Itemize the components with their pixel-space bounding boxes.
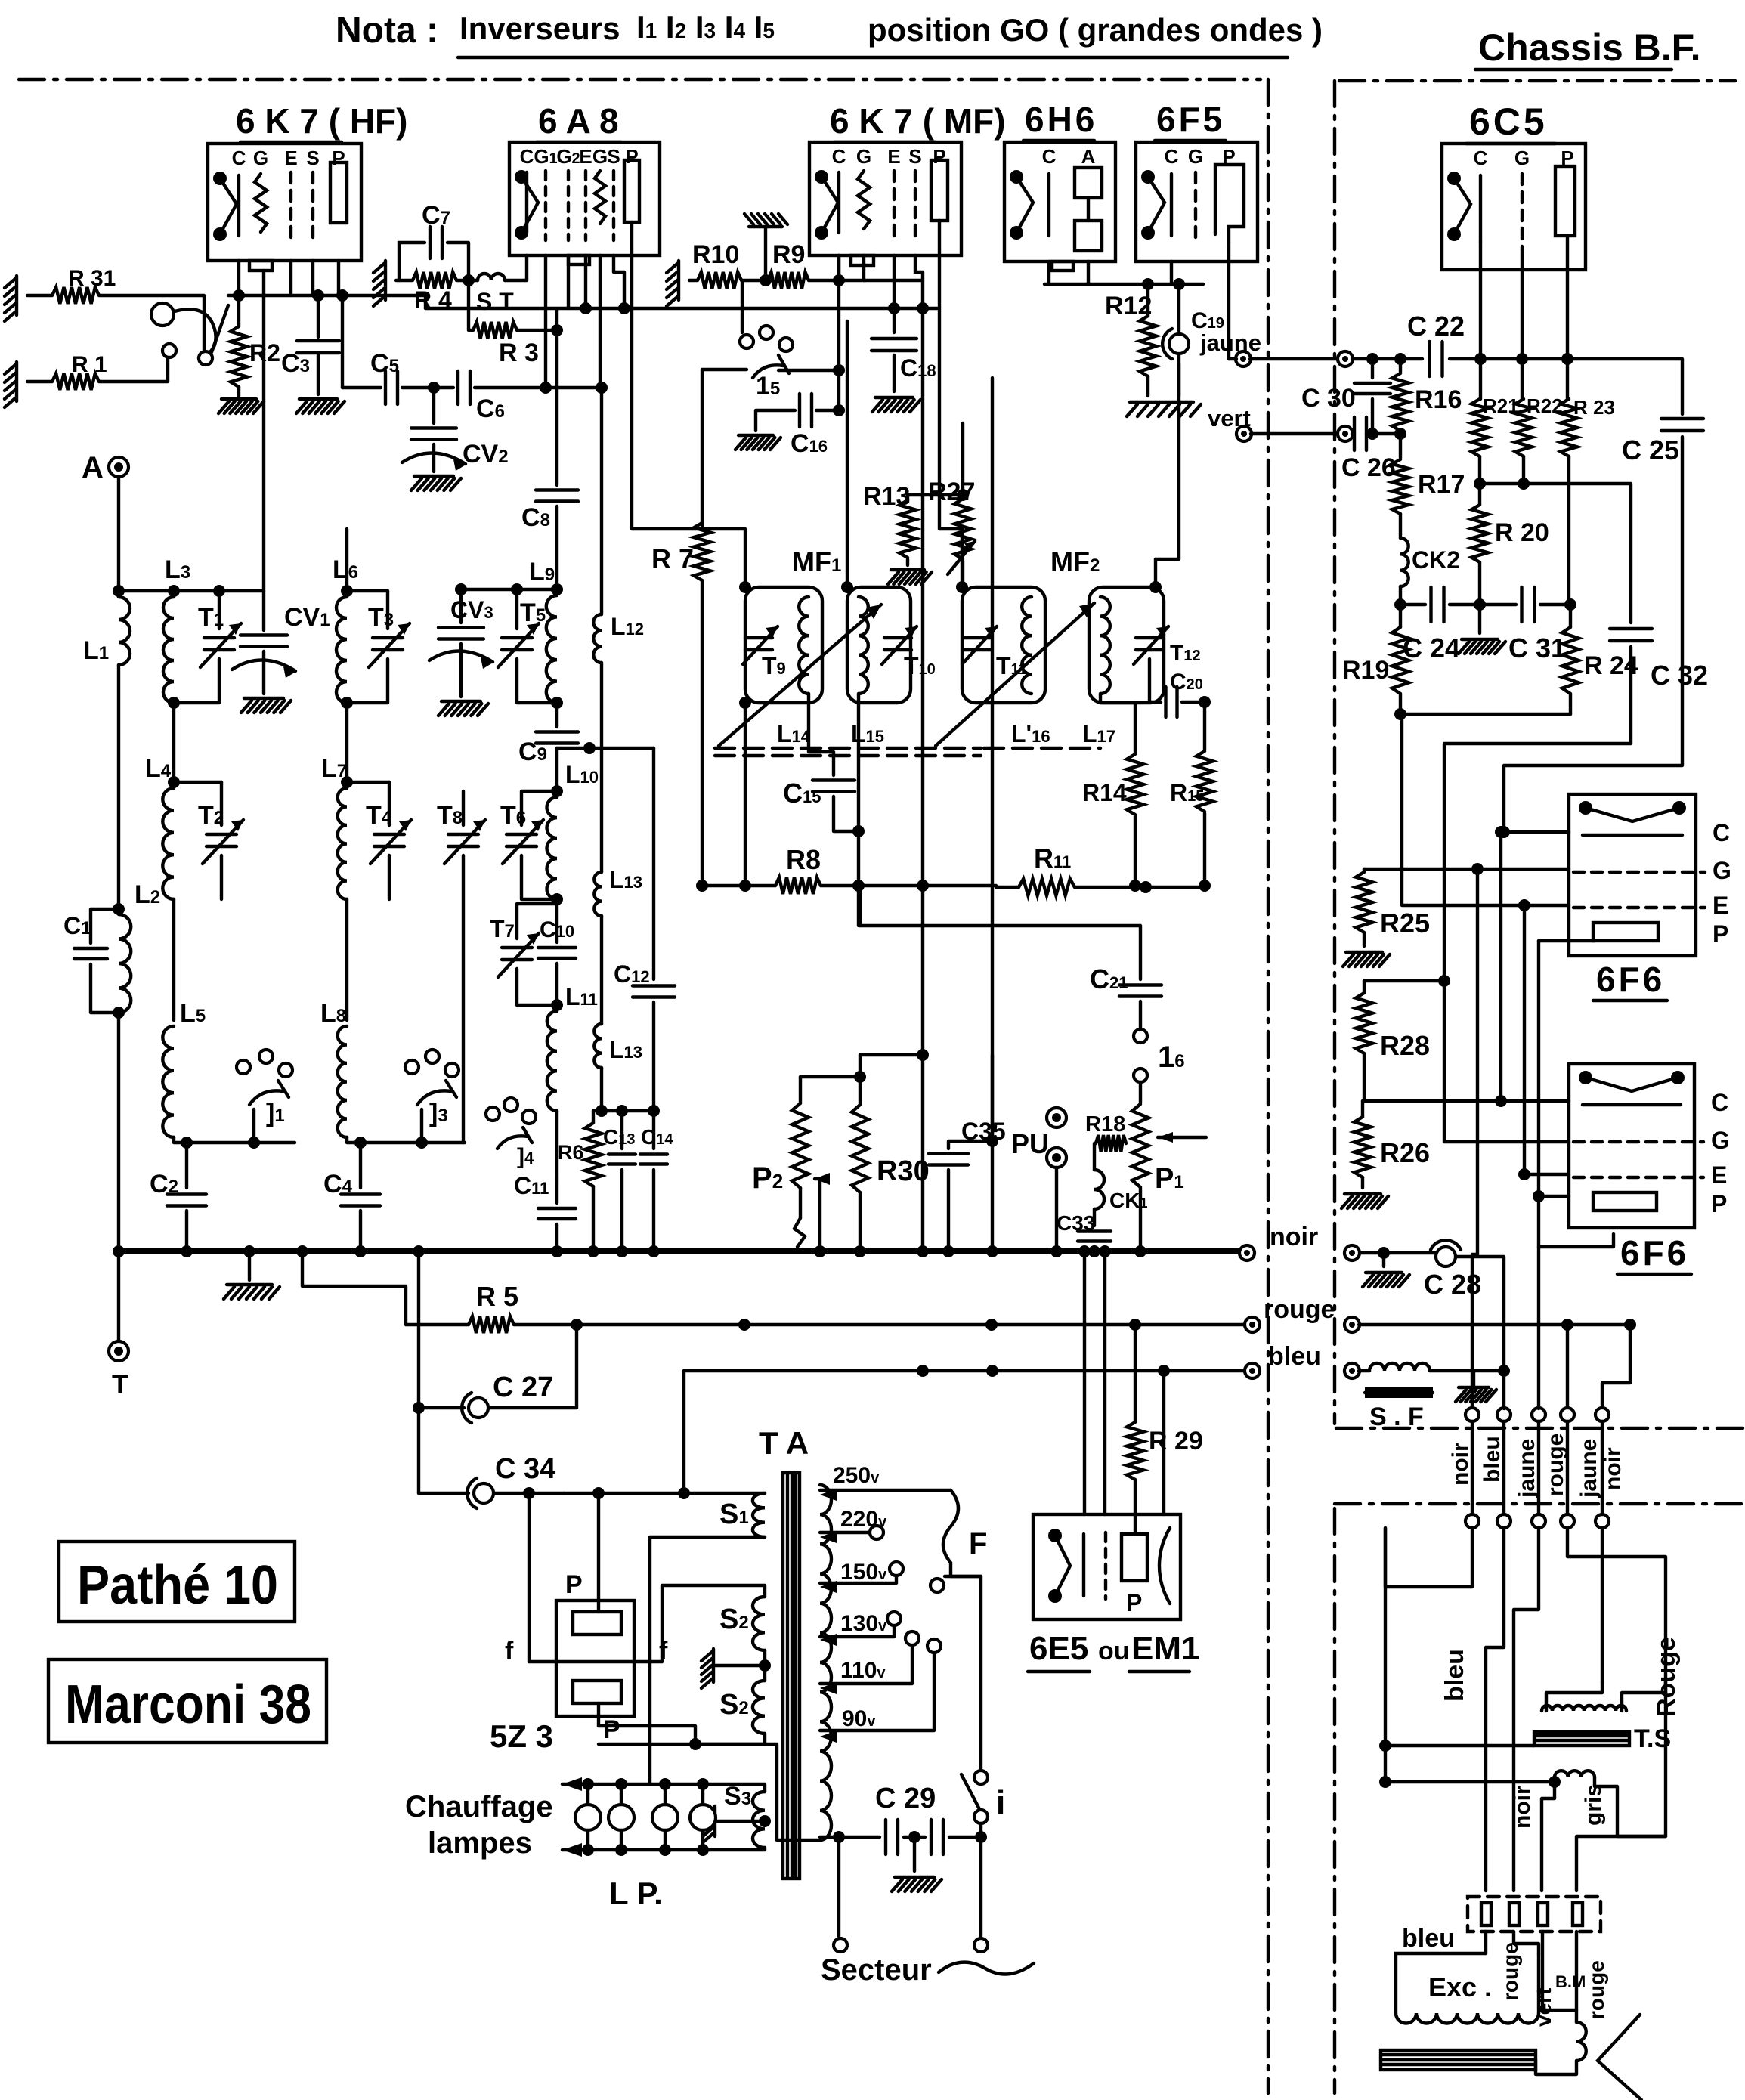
svg-text:F: F — [969, 1527, 987, 1560]
junction — [985, 1319, 998, 1331]
junction — [1498, 1365, 1510, 1377]
svg-text:C: C — [232, 147, 246, 169]
ground S.F — [1456, 1387, 1496, 1402]
potentiometer P1 wiper arrow — [1158, 1136, 1206, 1139]
resistor R23 — [1561, 399, 1577, 456]
wire to connector pin4 — [1576, 1836, 1666, 1891]
capacitor C12 — [633, 986, 675, 997]
svg-text:noir: noir — [1448, 1443, 1473, 1486]
speaker cone chevron — [1598, 2015, 1641, 2100]
junction — [917, 1049, 929, 1061]
connector pin 3 — [1538, 1903, 1548, 1925]
capacitor C7 — [430, 227, 442, 258]
junction — [416, 1137, 428, 1149]
wire C8 to L9 — [555, 506, 558, 589]
junction — [1394, 598, 1406, 611]
wire C16 to cathode column — [816, 409, 839, 412]
svg-text:Marconi 38: Marconi 38 — [65, 1675, 311, 1735]
ground C3 — [296, 399, 345, 413]
switch I3 contact — [425, 1050, 439, 1063]
junction — [243, 1245, 255, 1257]
wire voice coil bottom — [1385, 1780, 1555, 1783]
switch I3 contact — [405, 1060, 419, 1074]
wire rouge line — [514, 1323, 1245, 1326]
junction — [957, 489, 969, 501]
wire T6 branch — [521, 791, 557, 825]
wire T4 bottom — [388, 855, 391, 899]
wire T4 branch — [347, 781, 389, 784]
svg-text:R 3: R 3 — [499, 339, 539, 367]
resistor R9 — [768, 272, 809, 289]
wire T2 bottom — [220, 855, 223, 899]
svg-text:bleu: bleu — [1268, 1342, 1321, 1371]
wire R18 to CK1 — [1094, 1143, 1096, 1170]
svg-text:noir: noir — [1510, 1786, 1535, 1829]
tube 6K7HF pin labels — [232, 147, 345, 169]
ground CV3 — [438, 701, 488, 716]
junction — [1078, 1245, 1091, 1257]
wire C29 left — [820, 1836, 880, 1839]
junction — [213, 585, 225, 597]
chassis wall R4 — [373, 261, 385, 306]
junction — [917, 1245, 929, 1257]
resistor R26 — [1354, 1117, 1371, 1177]
junction — [738, 1319, 750, 1331]
transformer MF2 secondary can — [1089, 587, 1164, 703]
feedthrough capacitor C34 — [467, 1478, 493, 1508]
wire R28 bottom — [1363, 1053, 1366, 1101]
junction lamp bottom — [697, 1844, 709, 1856]
wire C26 right — [1366, 432, 1400, 435]
wire C35 bottom — [947, 1170, 950, 1251]
lamp pilote — [575, 1805, 601, 1830]
tube 6E5 envelope — [1033, 1514, 1180, 1619]
wire R13 top — [908, 493, 963, 496]
wire P top feed — [597, 1493, 600, 1612]
trimmer T5 — [498, 623, 539, 667]
capacitor CV3 — [438, 628, 484, 639]
wire R2 leads — [237, 295, 240, 396]
wire T3 bottom — [347, 659, 388, 703]
wire C18 top — [893, 308, 896, 332]
tube 6K7HF envelope — [208, 144, 361, 261]
wire 6F5 cathode down — [1170, 261, 1173, 284]
wire CV1 to ground — [262, 651, 265, 694]
resistor R22 — [1515, 399, 1532, 456]
svg-text:Pathé 10: Pathé 10 — [77, 1555, 278, 1616]
wire noir speaker down — [1542, 1782, 1555, 1891]
junction — [833, 404, 845, 416]
tube 6A8 heater — [515, 170, 538, 240]
capacitor C33 — [1078, 1232, 1111, 1242]
wire C14 top — [652, 1111, 655, 1149]
plug pin rouge — [1561, 1408, 1574, 1421]
wire C4 bottom — [359, 1211, 362, 1251]
wire hum coil link — [1595, 1777, 1666, 1836]
svg-text:Chassis B.F.: Chassis B.F. — [1478, 26, 1701, 69]
coil L14 — [799, 597, 809, 694]
tube 6K7HF grid — [255, 174, 267, 232]
switch I5 wiper — [753, 355, 789, 378]
junction — [1394, 353, 1406, 365]
plug pin rouge lower — [1561, 1514, 1574, 1528]
tube 6H6 title underline — [1023, 139, 1094, 142]
wire R7 to AVC line — [701, 580, 704, 886]
wire C30 bottom — [1371, 399, 1374, 434]
wire P bottom — [597, 1703, 600, 1726]
speaker chassis border left vertical — [1333, 1508, 1336, 2093]
wire — [996, 886, 1019, 889]
tube 6H6 envelope — [1004, 142, 1115, 261]
wire 90V tap — [820, 1653, 934, 1730]
tube 6K7MF cathode — [837, 172, 840, 233]
wire 150V tap — [820, 1576, 896, 1583]
junction — [551, 1245, 563, 1257]
svg-text:R 23: R 23 — [1573, 396, 1615, 419]
junction — [1533, 1190, 1545, 1202]
wire 6F6 lower cathode line — [1363, 1099, 1569, 1103]
svg-text:C 26: C 26 — [1341, 453, 1396, 482]
junction lamp top — [697, 1778, 709, 1790]
wire L17 bottom to R14 — [1100, 694, 1135, 753]
BF chassis border left vertical upper — [1333, 81, 1336, 1424]
wire R9 to 6K7MF cathode — [809, 255, 839, 280]
wire Rouge to bottom — [1664, 1682, 1667, 1836]
junction — [956, 581, 968, 593]
junction — [696, 880, 708, 892]
ground noir — [1363, 1273, 1409, 1287]
junction — [596, 1105, 608, 1117]
svg-text:P: P — [1711, 1190, 1727, 1217]
junction — [1474, 478, 1486, 490]
tube 6K7MF heater — [815, 170, 838, 240]
junction — [540, 382, 552, 394]
wire R14 bottom — [1134, 816, 1137, 886]
wire to C3 — [317, 295, 320, 337]
svg-text:G: G — [1188, 145, 1203, 168]
wire jack to bus — [212, 305, 228, 352]
resistor R28 — [1356, 993, 1372, 1053]
wire — [689, 279, 697, 282]
junction — [616, 1245, 628, 1257]
tube 6F6 lower screen dashed — [1573, 1176, 1703, 1179]
wire CK1 to C33 — [1093, 1209, 1096, 1226]
junction — [1378, 1247, 1390, 1259]
tube 6K7HF plate — [330, 162, 347, 223]
wire C19 bottom — [1177, 355, 1180, 396]
lamp line arrows — [562, 1777, 582, 1857]
wire between L13 coils — [600, 916, 603, 1024]
wire rouge jog — [1602, 1325, 1630, 1409]
stub — [859, 886, 862, 926]
resistor R25 — [1356, 872, 1372, 932]
wire S1 top — [684, 1492, 765, 1495]
potentiometer P1 — [1132, 1104, 1149, 1187]
junction — [583, 742, 596, 754]
wire S2 center tap ground — [715, 1664, 765, 1667]
ground R25 — [1343, 952, 1390, 966]
svg-text:A: A — [82, 451, 104, 484]
tube 6K7MF base key — [851, 255, 874, 265]
capacitor C16 — [800, 394, 812, 427]
svg-text:E: E — [284, 147, 297, 169]
wire secteur right — [979, 1837, 982, 1936]
svg-text:Chauffage: Chauffage — [405, 1790, 553, 1823]
wire 6A8 plate inner — [630, 222, 633, 255]
capacitor C26 — [1354, 417, 1366, 450]
svg-text:C 22: C 22 — [1407, 311, 1465, 342]
tube 6K7MF screen grids dashed — [894, 171, 915, 240]
wire R22 bottom — [1522, 456, 1525, 484]
feedthrough capacitor C19 — [1162, 329, 1189, 359]
svg-text:S T: S T — [476, 288, 514, 315]
wire 6A8 E down — [584, 255, 587, 308]
wire — [1229, 357, 1236, 360]
resistor R15 — [1196, 751, 1213, 812]
switch I5 contact — [760, 326, 773, 339]
svg-text:noir: noir — [1601, 1447, 1626, 1490]
wire bleu speaker column — [1384, 1528, 1387, 1782]
svg-text:i: i — [996, 1784, 1005, 1821]
junction — [975, 1831, 987, 1843]
junction — [1498, 826, 1510, 838]
svg-text:E: E — [1711, 1161, 1727, 1189]
junction — [759, 1659, 771, 1672]
chassis wall R10 — [667, 261, 679, 306]
BF chassis border top — [1339, 79, 1735, 82]
wire column to ground bus — [991, 378, 994, 1251]
tube 6A8 base key — [568, 255, 589, 264]
trimmer T12 — [1134, 626, 1168, 664]
svg-text:R26: R26 — [1380, 1137, 1430, 1168]
svg-text:G: G — [1711, 1127, 1730, 1154]
wire 130V tap — [820, 1626, 894, 1637]
tube 6F5 title underline — [1155, 139, 1226, 142]
wire CK2 bottom — [1399, 586, 1402, 605]
wire pin4 down — [1575, 1931, 1578, 2022]
tube 6F5 plate — [1215, 165, 1244, 243]
wire voice coil top — [1385, 1744, 1534, 1747]
junction — [1199, 880, 1211, 892]
wire 6A8 S down — [614, 255, 624, 308]
lamp pilote — [690, 1805, 716, 1830]
wire AVC bus — [821, 884, 996, 887]
selector stud 220 — [870, 1526, 883, 1539]
tube 6K7MF plate — [931, 160, 948, 221]
terminal noir left — [1239, 1245, 1255, 1260]
selector stud 90 — [927, 1639, 941, 1653]
wire to C11 — [555, 1179, 558, 1203]
switch i contact top — [974, 1771, 988, 1784]
transformer MF2 primary can — [962, 587, 1045, 703]
tube 6C5 cathode — [1479, 175, 1482, 242]
wire L12 to L13 — [600, 663, 603, 872]
wire R29 to 6E5 plate — [1134, 1480, 1137, 1534]
terminal PU 1 — [1047, 1108, 1066, 1127]
switch I6 contact — [1134, 1069, 1147, 1082]
wire R3 right — [518, 329, 557, 332]
tube 6F6 lower plate — [1593, 1192, 1657, 1211]
wire 6C5 plate down — [1566, 236, 1569, 359]
arrow CV3 — [429, 651, 494, 669]
terminal PU 2 — [1047, 1148, 1066, 1168]
wire C34 right — [494, 1492, 564, 1495]
svg-text:6E5: 6E5 — [1029, 1630, 1088, 1667]
wire R26 top — [1361, 1101, 1364, 1117]
trimmer T1 — [200, 623, 241, 667]
jack contact — [162, 344, 176, 357]
wire R31 to jack — [100, 295, 204, 351]
svg-text:jaune: jaune — [1576, 1439, 1601, 1498]
junction — [854, 1245, 866, 1257]
junction — [833, 364, 845, 376]
tube 6A8 grids dashed — [546, 171, 586, 240]
svg-text:C 27: C 27 — [493, 1372, 553, 1403]
junction — [739, 697, 751, 709]
wire 6A8 G1 down — [544, 255, 547, 388]
junction — [1199, 696, 1211, 708]
wire 6K7MF S down — [915, 255, 923, 308]
wire magnet link — [1536, 2060, 1576, 2074]
tube 6F5 grid dashed — [1194, 172, 1197, 243]
wire fuse to switch — [951, 1563, 981, 1768]
junction — [181, 1137, 193, 1149]
junction — [1518, 1168, 1530, 1180]
tube 6F6 upper grid dashed — [1573, 871, 1705, 874]
coil L10 — [547, 797, 558, 899]
wire secondary bottom loop — [695, 1744, 820, 1840]
RF chassis border top — [19, 78, 1261, 81]
tube 6A8 screen dashed — [612, 171, 615, 240]
svg-text:R18: R18 — [1085, 1112, 1125, 1137]
svg-text:R 20: R 20 — [1495, 518, 1549, 547]
junction — [455, 583, 467, 595]
wire — [1502, 1371, 1505, 1409]
junction — [1134, 1245, 1146, 1257]
junction — [1495, 1095, 1507, 1107]
svg-text:S: S — [306, 147, 319, 169]
svg-text:C: C — [1711, 1089, 1728, 1116]
wire noir plug feed — [1472, 869, 1477, 1409]
wire R30 top — [859, 1055, 862, 1105]
wire C12 column — [652, 748, 655, 979]
wire pin2 down — [1514, 1931, 1539, 1953]
connector pin 2 — [1509, 1903, 1519, 1925]
wire R16 top — [1399, 359, 1402, 372]
junction — [739, 581, 751, 593]
junction — [336, 289, 348, 302]
wire C1 branch bottom — [91, 964, 119, 1013]
tube 6K7MF envelope — [809, 142, 961, 255]
junction — [523, 1487, 535, 1499]
wire R6 top — [592, 1111, 595, 1123]
tube 6K7MF grid — [858, 171, 870, 229]
svg-text:PU: PU — [1011, 1128, 1049, 1159]
junction — [233, 289, 245, 302]
resistor R31 — [52, 287, 99, 304]
ground C18 — [872, 397, 920, 412]
wire C28 to speaker feed — [1456, 1257, 1504, 1371]
svg-text:Inverseurs: Inverseurs — [459, 11, 620, 46]
wire CV3 to ground — [459, 644, 463, 697]
tube 6K7 HF title underline — [240, 141, 342, 144]
wire C2 bottom — [185, 1211, 188, 1251]
wire R6 to bus — [592, 1186, 595, 1251]
trimmer T10 — [882, 626, 917, 664]
svg-text:C: C — [1165, 145, 1179, 168]
junction — [616, 1105, 628, 1117]
svg-text:R13: R13 — [863, 482, 910, 511]
wire 6H6 line — [1044, 283, 1203, 286]
svg-text:A: A — [1081, 145, 1096, 168]
svg-text:R16: R16 — [1415, 385, 1462, 414]
wire C27 right — [489, 1325, 577, 1408]
wire 6F6 upper screen line — [1402, 714, 1569, 905]
tube 6F5 pin labels — [1165, 145, 1236, 168]
tube 6H6 heater — [1010, 170, 1033, 240]
wire T7 branch — [517, 904, 557, 939]
plug pin bleu lower — [1497, 1514, 1511, 1528]
tube 6K7HF cathode — [237, 175, 240, 236]
coil L8 — [338, 1026, 347, 1137]
svg-text:6 K 7 ( MF): 6 K 7 ( MF) — [830, 101, 1006, 141]
wire grid bus left — [228, 294, 425, 297]
wire R30 bottom — [859, 1192, 862, 1251]
ground R13 — [888, 570, 932, 584]
junction — [942, 1245, 954, 1257]
resistor R11 — [1019, 879, 1075, 895]
resistor R21 — [1471, 399, 1488, 456]
capacitor CV1 — [240, 636, 287, 647]
wire 6K7HF cathode down — [237, 261, 240, 295]
wire 6K7MF cathode down — [837, 255, 840, 280]
terminal bleu left — [1245, 1363, 1260, 1378]
plug pin noir lower — [1465, 1514, 1479, 1528]
wire R17 bottom — [1399, 514, 1402, 538]
wire 6F6 upper plate exit — [1539, 939, 1595, 942]
junction — [428, 382, 440, 394]
svg-text:lampes: lampes — [428, 1826, 532, 1860]
switch I5 contact — [740, 335, 753, 348]
junction lamp bottom — [615, 1844, 627, 1856]
junction — [1564, 598, 1576, 611]
junction — [551, 324, 563, 336]
wire C19 top — [1177, 284, 1180, 331]
junction — [312, 289, 324, 302]
wire R5 line — [406, 1323, 469, 1326]
wire cathode column — [837, 280, 840, 410]
wire C29 mid — [904, 1836, 925, 1839]
svg-text:Secteur: Secteur — [821, 1953, 932, 1987]
coil L11 — [547, 1011, 557, 1111]
wire — [1359, 1369, 1369, 1372]
wire 6K7HF plate down — [337, 261, 340, 295]
wire C32 bottom — [1444, 647, 1631, 981]
wire L9 to C9 — [555, 703, 558, 727]
arrow CV1 — [232, 660, 297, 678]
capacitor C18 — [871, 339, 917, 351]
plug pin jaune — [1532, 1408, 1545, 1421]
wire secteur left — [837, 1837, 840, 1936]
svg-text:G: G — [856, 145, 871, 168]
tube 6F5 envelope — [1136, 142, 1258, 261]
junction — [1142, 278, 1154, 290]
tube 6A8 cathode — [525, 172, 528, 233]
wire I6 to P1 — [1139, 1082, 1142, 1103]
wire 6C5 cathode down — [1479, 242, 1482, 359]
wire top line L1-L3-CV1 — [119, 589, 264, 592]
junction — [551, 697, 563, 709]
